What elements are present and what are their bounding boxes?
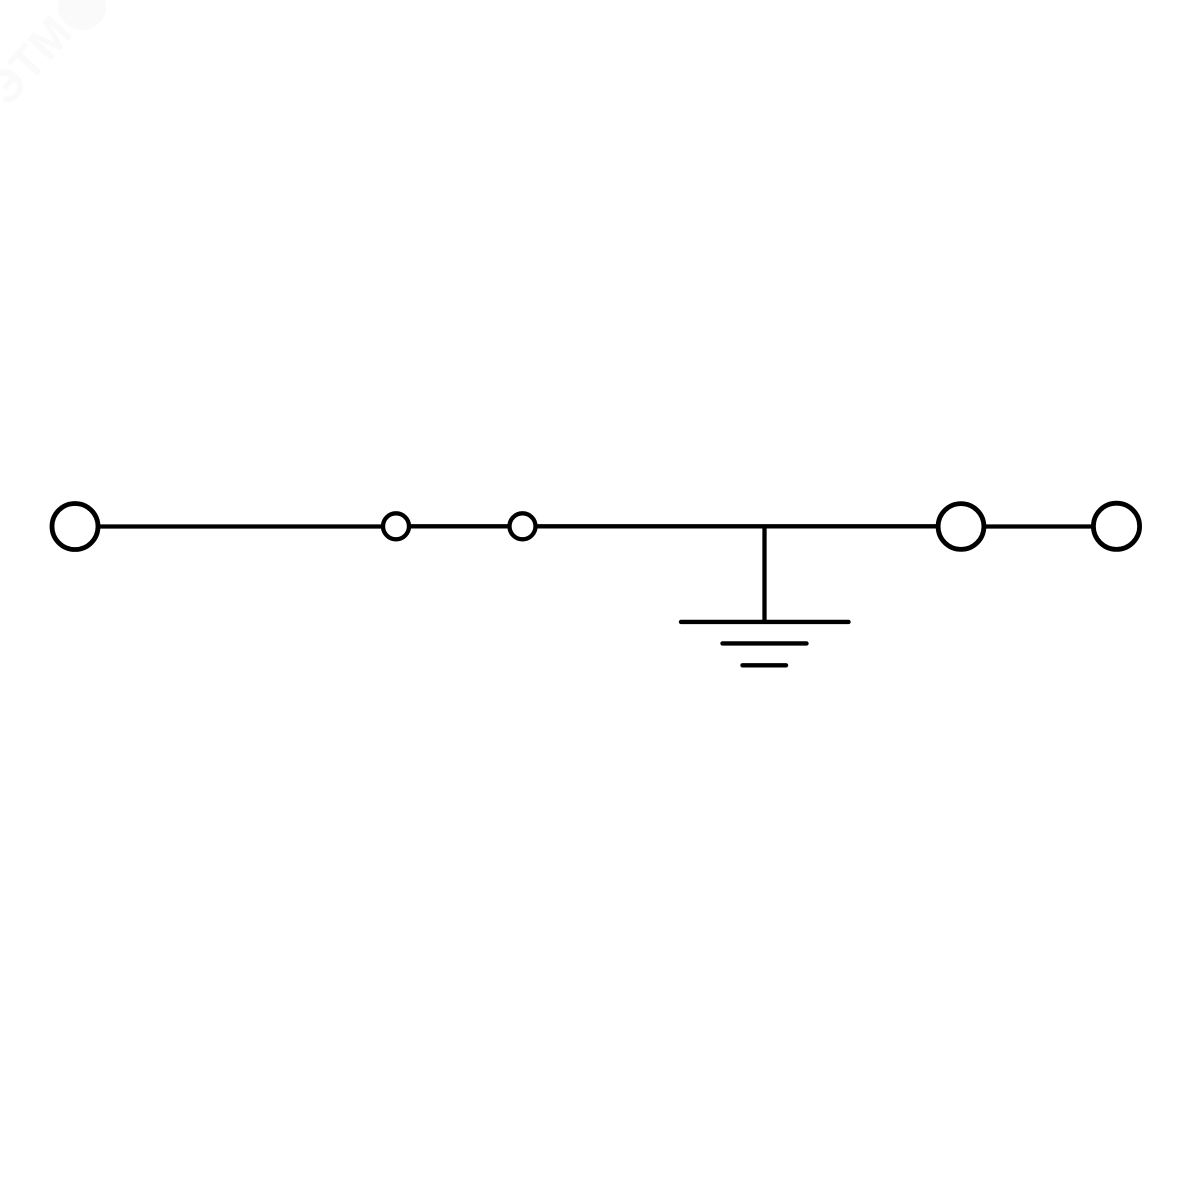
ground bar 1 [681,620,849,624]
terminal circle T1 [52,504,98,550]
wire T4-T5 [985,524,1092,528]
wire to ground [762,528,766,622]
watermark [0,0,106,115]
wire T3-T4 [537,524,938,528]
terminal circle T3 [510,513,536,539]
ground bar 2 [723,641,807,645]
terminal circle T5 [1093,503,1139,549]
wire T1-T2 [100,524,383,528]
wire T2-T3 [410,524,509,528]
terminal circle T4 [938,504,984,550]
terminal circle T2 [383,513,409,539]
ground bar 3 [743,663,787,667]
